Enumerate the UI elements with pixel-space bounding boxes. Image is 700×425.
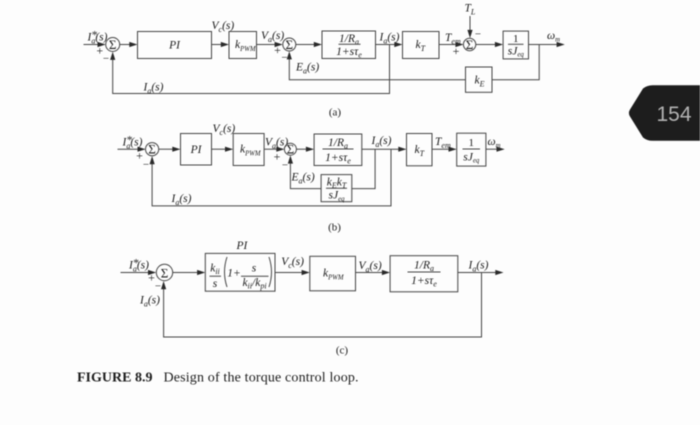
svg-text:1: 1: [513, 33, 519, 45]
wire: kPWM to Ra block (c): [356, 272, 383, 274]
svg-text:(b): (b): [328, 222, 341, 234]
block kE (a): [466, 67, 493, 92]
summing junction A3: [463, 38, 475, 50]
svg-text:*: *: [126, 135, 132, 147]
wire: input to summing junction B1: [118, 148, 139, 150]
svg-text:1/Ra: 1/Ra: [414, 260, 434, 274]
block kPWM (a): [229, 32, 257, 59]
svg-text:Ia(s): Ia(s): [139, 295, 160, 309]
svg-text:Vc(s): Vc(s): [213, 123, 236, 137]
svg-text:Ia(s): Ia(s): [128, 260, 149, 274]
svg-text:s: s: [213, 278, 218, 290]
wire: B2 to Ra block (b): [296, 148, 306, 150]
wire: Ia feedback (b): [152, 149, 391, 206]
svg-text:TL: TL: [465, 3, 476, 17]
svg-text:Σ: Σ: [161, 265, 169, 280]
svg-text:1: 1: [469, 137, 475, 149]
block PI (b): [181, 134, 212, 166]
wire: branch down to kE (a): [492, 45, 539, 80]
summing junction C1: [156, 264, 172, 280]
wire: Ia feedback (a): [113, 45, 390, 94]
block kPWM (b): [233, 134, 264, 166]
svg-text:Va(s): Va(s): [359, 260, 382, 274]
block 1/sJeq (b): [457, 133, 486, 166]
svg-text:1/Ra: 1/Ra: [328, 137, 348, 151]
wire: Ra to kT with taps (b): [362, 148, 399, 150]
svg-text:kii/kpi: kii/kpi: [242, 277, 266, 291]
parenthesis right (c): [269, 257, 272, 287]
wire: tap down to kEkT block input (b): [352, 149, 375, 188]
wire: output Ia(s) (c): [458, 272, 496, 274]
svg-text:Ia(s): Ia(s): [143, 82, 164, 96]
block 1/Ra over 1+s tau_e (c): [390, 256, 458, 292]
wire: PI block to kPWM (c): [275, 272, 302, 274]
svg-text:Σ: Σ: [109, 37, 117, 52]
summing junction B1: [146, 143, 159, 156]
wire: kT to summing junction A3: [439, 44, 456, 46]
svg-text:sJeq: sJeq: [328, 190, 345, 203]
svg-text:kE: kE: [475, 75, 485, 89]
svg-text:Ia(s): Ia(s): [371, 135, 392, 149]
wire: B1 to PI block: [159, 148, 173, 150]
svg-text:Design of the torque control l: Design of the torque control loop.: [164, 371, 359, 386]
svg-text:kPWM: kPWM: [323, 268, 344, 282]
wire: A3 to Jeq block: [476, 44, 496, 46]
svg-text:PI: PI: [190, 144, 203, 156]
block PI (a): [138, 32, 212, 59]
svg-text:kPWM: kPWM: [240, 144, 261, 158]
svg-text:−: −: [155, 281, 161, 293]
wire: kT to Jeq block (b): [432, 148, 449, 150]
summing junction A1: [106, 38, 120, 52]
svg-text:sJeq: sJeq: [508, 46, 525, 59]
block kEkT/sJeq (b): [321, 175, 352, 202]
svg-text:Σ: Σ: [286, 37, 294, 52]
svg-text:(c): (c): [336, 345, 349, 357]
svg-text:1+sτe: 1+sτe: [336, 46, 362, 60]
wire: output omega_m (a): [529, 44, 558, 46]
svg-text:+: +: [274, 43, 281, 57]
svg-text:kPWM: kPWM: [235, 39, 256, 53]
wire: input to summing junction C1: [121, 272, 149, 274]
svg-text:1+sτe: 1+sτe: [411, 275, 437, 289]
svg-text:PI: PI: [168, 39, 181, 51]
wire: PI to kPWM: [212, 44, 222, 46]
block 1/sJeq (a): [503, 31, 528, 59]
block kT (a): [403, 32, 440, 59]
wire: C1 to PI formula block: [173, 272, 198, 274]
wire: A1 to PI block: [120, 44, 130, 46]
svg-text:s: s: [252, 263, 257, 275]
svg-text:−: −: [282, 160, 288, 172]
svg-text:Σ: Σ: [466, 37, 474, 52]
wire: PI to kPWM (b): [212, 148, 226, 150]
svg-text:sJeq: sJeq: [463, 152, 480, 165]
block kPWM (c): [310, 256, 356, 291]
block 1/Ra over 1+s tau_e (b): [314, 134, 362, 166]
svg-text:kT: kT: [416, 39, 426, 53]
wire: input to summing junction A1: [84, 44, 99, 46]
wire: TL arrow into A3 top: [469, 16, 471, 31]
svg-text:Σ: Σ: [148, 142, 156, 157]
svg-text:Ia(s): Ia(s): [171, 193, 192, 207]
svg-text:FIGURE 8.9: FIGURE 8.9: [77, 371, 152, 386]
svg-text:PI: PI: [236, 240, 249, 252]
svg-text:Ea(s): Ea(s): [291, 172, 315, 186]
svg-text:ωm: ωm: [547, 30, 560, 44]
svg-text:kT: kT: [415, 144, 425, 158]
block kT (b): [407, 134, 433, 166]
parenthesis left (c): [225, 257, 228, 287]
svg-text:Σ: Σ: [287, 142, 295, 157]
svg-text:1+sτe: 1+sτe: [325, 152, 351, 166]
wire: kE to A2 feedback Ea: [289, 58, 465, 80]
wire: Ra block to kT with tap: [376, 44, 396, 46]
block 1/Ra over 1+s tau_e (a): [322, 31, 376, 59]
svg-text:*: *: [91, 30, 97, 42]
wire: kEkT block to B2 feedback Ea (b): [290, 162, 321, 189]
svg-text:1+: 1+: [227, 268, 241, 280]
wire: kPWM to summing junction A2: [257, 44, 276, 46]
svg-text:−: −: [475, 29, 481, 41]
svg-text:Ia(s): Ia(s): [468, 260, 489, 274]
svg-text:kii: kii: [210, 263, 220, 277]
block PI formula (c): [205, 253, 275, 291]
wire: output omega_m (b): [486, 148, 497, 150]
svg-text:−: −: [143, 159, 149, 171]
svg-text:*: *: [133, 258, 139, 270]
summing junction B2: [284, 143, 296, 155]
svg-text:154: 154: [657, 103, 692, 126]
svg-text:+: +: [453, 44, 460, 58]
page number tab shape: [629, 85, 700, 141]
svg-text:Ea(s): Ea(s): [295, 62, 319, 76]
svg-text:Va(s): Va(s): [261, 30, 284, 44]
svg-text:−: −: [281, 52, 287, 64]
summing junction A2: [283, 38, 296, 51]
svg-text:−: −: [103, 53, 109, 65]
svg-text:(a): (a): [329, 107, 342, 119]
svg-text:+: +: [274, 150, 281, 164]
wire: kPWM to summing junction B2: [264, 148, 277, 150]
wire: Ia feedback loop (c): [164, 273, 482, 338]
wire: A2 to Ra block: [296, 44, 315, 46]
svg-text:Vc(s): Vc(s): [281, 256, 304, 270]
